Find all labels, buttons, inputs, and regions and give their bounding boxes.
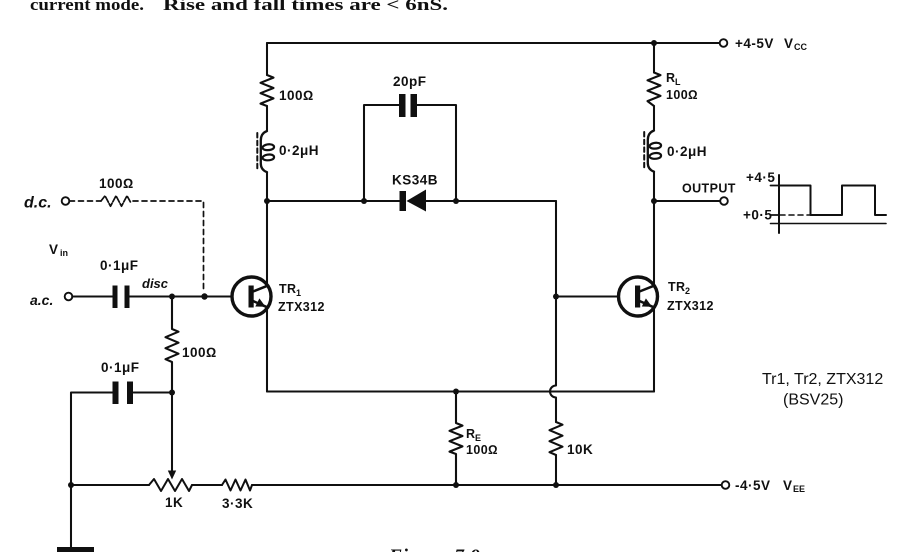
VEE terminal <box>722 481 730 489</box>
wire bypass cap to ground branch <box>71 393 113 486</box>
wire mid horizontal (TR1 collector to KS34B net) <box>267 200 556 202</box>
inductor core dashed line (right) <box>643 132 645 168</box>
svg-text:TR: TR <box>668 280 685 294</box>
svg-text:TR: TR <box>279 282 296 296</box>
svg-text:L: L <box>675 77 681 87</box>
node dot OUTPUT <box>651 198 657 204</box>
svg-text:1: 1 <box>296 288 301 298</box>
svg-text:2: 2 <box>685 286 690 296</box>
svg-text:100Ω: 100Ω <box>466 443 498 457</box>
svg-text:V: V <box>784 36 794 51</box>
ground <box>57 547 94 552</box>
wire OUTPUT <box>654 200 720 202</box>
wire 20pF right stub <box>417 105 456 201</box>
wire capacitor to TR1 base <box>130 295 233 297</box>
resistor 100ohm (left collector) <box>261 75 274 106</box>
node dot bias/cap junction <box>169 390 175 396</box>
wire TR2 base net down with hop over emitter wire <box>550 297 556 423</box>
svg-text:Rise and fall times are < 6nS.: Rise and fall times are < 6nS. <box>163 0 448 14</box>
svg-text:V: V <box>783 478 793 493</box>
svg-text:Tr1, Tr2, ZTX312: Tr1, Tr2, ZTX312 <box>762 371 883 388</box>
svg-text:OUTPUT: OUTPUT <box>682 182 736 196</box>
wire pot wiper <box>171 393 173 473</box>
svg-text:0·2μH: 0·2μH <box>279 143 319 158</box>
potentiometer 1K <box>149 479 192 491</box>
svg-text:disc: disc <box>142 276 169 291</box>
svg-text:100Ω: 100Ω <box>666 88 698 102</box>
wire left branch vertical (TR1 collector chain) <box>266 43 268 130</box>
svg-text:100Ω: 100Ω <box>182 345 217 360</box>
wire RL chain (TR2 collector) <box>653 43 655 130</box>
wire down to chassis ground <box>70 485 72 548</box>
svg-text:current mode.: current mode. <box>30 0 144 14</box>
VEE rail wire <box>71 484 722 486</box>
svg-text:+4·5: +4·5 <box>746 170 775 185</box>
OUTPUT terminal <box>720 197 728 205</box>
Vcc terminal <box>720 39 728 47</box>
waveform axis <box>778 175 780 233</box>
node dot 20pF right stub <box>453 198 459 204</box>
waveform square wave <box>779 186 886 216</box>
wiper arrowhead <box>168 471 176 480</box>
svg-text:0·1μF: 0·1μF <box>100 258 139 273</box>
waveform tick +0.5 <box>771 214 780 216</box>
svg-text:+0·5: +0·5 <box>743 208 772 223</box>
wire 20pF left stub <box>364 105 399 201</box>
node dot at left chain / mid wire <box>264 198 270 204</box>
node dot d.c. branch on base wire <box>201 293 207 299</box>
capacitor 20pF <box>399 94 417 117</box>
svg-text:1K: 1K <box>165 495 183 510</box>
svg-text:E: E <box>475 433 481 443</box>
svg-text:ZTX312: ZTX312 <box>278 300 325 314</box>
transistor TR2 <box>653 201 655 392</box>
inductor 0.2uH (left) <box>261 131 267 172</box>
svg-text:-4·5V: -4·5V <box>735 478 771 493</box>
wire TR2 base lead <box>556 295 619 297</box>
wire dashed d.c. branch <box>70 200 102 202</box>
cropped body text line at top <box>30 0 448 14</box>
svg-text:V: V <box>49 242 59 257</box>
svg-text:Figure 7.9: Figure 7.9 <box>388 546 481 552</box>
inductor core dashed line (left) <box>256 133 258 169</box>
note Tr1, Tr2, ZTX312 (BSV25) <box>762 371 883 409</box>
node dot 20pF left stub <box>361 198 367 204</box>
node dot RE top <box>453 389 459 395</box>
a.c. input terminal <box>65 293 73 301</box>
node dot RE bottom <box>453 482 459 488</box>
figure caption (cropped) <box>388 546 481 552</box>
resistor 10K <box>550 422 563 455</box>
label +4-5V Vcc <box>735 36 807 52</box>
inductor 0.2uH (right) <box>648 131 654 172</box>
Vcc supply rail wire <box>267 42 720 44</box>
svg-text:100Ω: 100Ω <box>99 176 134 191</box>
wire emitter bus <box>267 390 654 392</box>
wire KS34B net down to TR2 base <box>555 201 557 297</box>
diode KS34B <box>400 190 427 212</box>
label -4.5V VEE <box>735 478 805 494</box>
node Vcc junction dot <box>651 40 657 46</box>
svg-text:d.c.: d.c. <box>24 195 52 212</box>
waveform baseline <box>771 223 887 225</box>
svg-text:in: in <box>60 248 68 258</box>
svg-text:+4-5V: +4-5V <box>735 36 774 51</box>
svg-text:CC: CC <box>794 42 807 52</box>
capacitor 0.1uF (bypass) <box>134 391 173 393</box>
capacitor 0.1uF (input) <box>113 286 130 309</box>
resistor RE 100ohm <box>450 392 463 486</box>
svg-text:0·2μH: 0·2μH <box>667 144 707 159</box>
svg-text:EE: EE <box>793 484 805 494</box>
wire dashed d.c. branch to base <box>133 201 204 291</box>
transistor TR1 <box>266 201 268 392</box>
resistor 100ohm (d.c. branch) <box>101 196 131 206</box>
node dot 100ohm tap <box>169 294 175 300</box>
waveform dashed low level <box>780 214 810 216</box>
svg-text:a.c.: a.c. <box>30 292 53 308</box>
svg-text:100Ω: 100Ω <box>279 88 314 103</box>
svg-text:10K: 10K <box>567 442 593 457</box>
resistor RL 100ohm <box>648 73 661 107</box>
label Vin <box>49 242 68 258</box>
resistor 3.3K <box>222 480 252 491</box>
waveform tick +4.5 <box>771 185 780 187</box>
node dot TR2 base <box>553 294 559 300</box>
node dot ground branch on VEE rail <box>68 482 74 488</box>
node dot 10K bottom <box>553 482 559 488</box>
d.c. input terminal <box>62 197 70 205</box>
svg-text:20pF: 20pF <box>393 74 427 89</box>
svg-text:0·1μF: 0·1μF <box>101 360 140 375</box>
wire a.c. to capacitor <box>72 295 112 297</box>
resistor 100ohm (base bias) <box>166 297 179 393</box>
svg-text:3·3K: 3·3K <box>222 496 253 511</box>
svg-text:(BSV25): (BSV25) <box>783 392 843 409</box>
svg-text:ZTX312: ZTX312 <box>667 299 714 313</box>
svg-text:KS34B: KS34B <box>392 173 438 188</box>
